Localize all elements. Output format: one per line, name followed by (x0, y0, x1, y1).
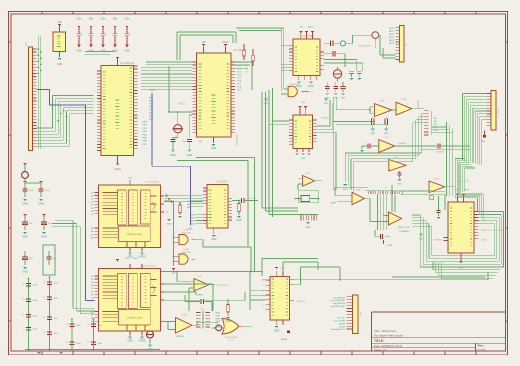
svg-text:GND: GND (133, 258, 138, 260)
svg-text:CLK: CLK (128, 178, 133, 180)
svg-text:AGND: AGND (139, 340, 146, 343)
svg-text:100n: 100n (124, 19, 130, 21)
svg-text:IC5E: IC5E (434, 179, 439, 181)
svg-text:AC IN: AC IN (339, 325, 345, 328)
svg-text:IC3 24C64: IC3 24C64 (217, 182, 229, 184)
svg-text:100n: 100n (54, 318, 58, 320)
svg-text:IC4A: IC4A (184, 229, 189, 232)
svg-text:For: Model <Math circuit>: For: Model <Math circuit> (374, 334, 404, 338)
svg-text:WM8804: WM8804 (434, 240, 443, 242)
svg-text:100n: 100n (76, 343, 80, 345)
svg-text:GND: GND (225, 320, 231, 323)
svg-text:GND: GND (274, 330, 280, 333)
svg-text:VREF: VREF (330, 203, 336, 205)
svg-text:SCL: SCL (188, 228, 193, 231)
svg-text:NET5: NET5 (389, 43, 395, 45)
svg-text:IC9 74HC574: IC9 74HC574 (145, 182, 159, 184)
svg-text:GND: GND (22, 203, 28, 206)
svg-text:IC11: IC11 (459, 181, 464, 183)
svg-text:GND: GND (22, 271, 28, 274)
svg-text:Pos PWM GND: Pos PWM GND (331, 300, 346, 302)
svg-text:16.9344MHZ: 16.9344MHZ (358, 46, 371, 48)
svg-text:LM4880: LM4880 (398, 143, 407, 145)
svg-text:+5V: +5V (301, 102, 305, 104)
svg-text:NET0: NET0 (389, 28, 395, 30)
svg-text:100n: 100n (33, 285, 37, 287)
svg-text:GND: GND (170, 154, 176, 157)
svg-text:74HC4046N: 74HC4046N (225, 337, 237, 339)
svg-text:Neg PWM GND: Neg PWM GND (330, 306, 345, 308)
svg-text:GND: GND (481, 141, 486, 143)
svg-text:AVCC: AVCC (222, 41, 229, 44)
svg-text:GND: GND (388, 245, 393, 247)
svg-text:GND: GND (341, 97, 346, 99)
svg-text:100n: 100n (98, 343, 102, 345)
svg-text:AGND: AGND (139, 256, 146, 259)
svg-text:100n: 100n (33, 316, 37, 318)
svg-text:GND: GND (76, 51, 81, 53)
svg-text:AGND: AGND (281, 338, 288, 341)
svg-text:100n: 100n (112, 19, 118, 21)
svg-text:LM4880N: LM4880N (399, 231, 409, 233)
svg-text:74HC04D: 74HC04D (289, 84, 299, 86)
svg-text:100n: 100n (76, 325, 80, 327)
svg-text:100n: 100n (54, 333, 58, 335)
svg-text:MEGA8-AI: MEGA8-AI (236, 134, 239, 145)
svg-text:100n: 100n (33, 300, 37, 302)
svg-text:Neg PWM IN: Neg PWM IN (333, 303, 346, 305)
svg-text:GND: GND (306, 227, 311, 229)
svg-text:MUTE CTRL: MUTE CTRL (398, 227, 411, 229)
svg-text:GND: GND (308, 85, 314, 88)
svg-text:XTAL1: XTAL1 (178, 103, 186, 106)
svg-text:GND: GND (127, 340, 133, 343)
svg-text:IC4C: IC4C (198, 276, 203, 278)
svg-text:100n: 100n (33, 329, 37, 331)
svg-text:+5V: +5V (299, 27, 303, 29)
svg-text:GND: GND (264, 103, 269, 105)
svg-text:LM311: LM311 (197, 295, 204, 297)
svg-text:GND: GND (236, 219, 242, 222)
svg-text:100n: 100n (54, 298, 58, 300)
svg-text:CONTROL LOGIC: CONTROL LOGIC (127, 318, 143, 320)
svg-text:100n/63: 100n/63 (436, 152, 444, 154)
svg-text:100n: 100n (88, 19, 94, 21)
svg-text:+3V3: +3V3 (463, 190, 469, 192)
svg-text:74HC00N: 74HC00N (181, 252, 191, 254)
svg-text:OPA2134: OPA2134 (417, 99, 420, 109)
svg-text:74HC00N: 74HC00N (181, 232, 191, 234)
svg-text:GND: GND (38, 203, 44, 206)
svg-text:TDA1543: TDA1543 (296, 300, 306, 303)
svg-text:GND: GND (397, 184, 402, 186)
svg-text:NET2: NET2 (389, 34, 395, 36)
svg-text:NET4: NET4 (389, 40, 395, 42)
svg-text:GND: GND (187, 154, 193, 157)
svg-text:IC5D: IC5D (394, 157, 399, 159)
svg-text:+5V: +5V (201, 41, 206, 44)
svg-text:GND: GND (211, 147, 217, 150)
svg-text:100n: 100n (98, 325, 102, 327)
svg-text:GND: GND (324, 103, 329, 105)
svg-text:R12 4K7: R12 4K7 (248, 198, 257, 200)
svg-text:GND: GND (459, 268, 464, 270)
svg-text:IC6 CS8416: IC6 CS8416 (300, 36, 313, 38)
svg-text:GND: GND (57, 63, 63, 66)
svg-text:MUTE: MUTE (339, 323, 346, 325)
svg-text:CONTROL LOGIC: CONTROL LOGIC (127, 234, 143, 236)
svg-text:GND: GND (22, 236, 28, 239)
svg-text:GND: GND (124, 51, 129, 53)
svg-text:IC6A: IC6A (356, 189, 361, 192)
svg-text:GND: GND (211, 238, 217, 241)
svg-text:IC10 74HC574: IC10 74HC574 (141, 266, 156, 268)
svg-text:Date: 22/06/2014 19:32: Date: 22/06/2014 19:32 (374, 344, 403, 348)
svg-text:Pos PWM IN: Pos PWM IN (333, 297, 345, 299)
svg-text:IC8A: IC8A (182, 314, 187, 317)
svg-text:GND: GND (301, 158, 306, 160)
svg-text:IC1 MEGA16: IC1 MEGA16 (120, 62, 135, 65)
svg-text:+5V: +5V (125, 258, 129, 260)
svg-text:IC5B: IC5B (402, 99, 407, 101)
svg-text:+5V: +5V (57, 21, 62, 24)
svg-text:TITLE:: TITLE: (374, 339, 384, 343)
svg-text:GND: GND (167, 224, 172, 226)
svg-text:AGND: AGND (114, 168, 121, 171)
svg-text:Standby/On 5V: Standby/On 5V (331, 328, 346, 331)
svg-text:JP1: JP1 (25, 41, 28, 46)
svg-text:LM311N: LM311N (176, 336, 185, 338)
svg-text:VOL DOWN: VOL DOWN (334, 320, 346, 322)
svg-text:100n: 100n (76, 19, 82, 21)
svg-text:User: <Name Text>: User: <Name Text> (374, 329, 397, 333)
svg-text:GND: GND (384, 133, 389, 135)
svg-text:COAX: COAX (481, 239, 488, 242)
svg-text:GND: GND (343, 189, 348, 191)
svg-text:100n: 100n (54, 283, 58, 285)
svg-text:IC5C: IC5C (384, 137, 389, 139)
svg-text:AVCC: AVCC (308, 26, 314, 29)
svg-text:IC5A: IC5A (380, 100, 385, 103)
svg-text:VOL UP: VOL UP (337, 318, 345, 320)
svg-text:A / 1.0: A / 1.0 (478, 348, 486, 352)
svg-text:GND: GND (370, 133, 375, 135)
svg-text:+5V: +5V (454, 190, 458, 192)
svg-text:NET3: NET3 (389, 37, 395, 39)
svg-text:IC4B: IC4B (184, 249, 189, 251)
svg-text:Rev:: Rev: (478, 344, 485, 348)
svg-text:NET1: NET1 (389, 31, 395, 33)
svg-text:PC2VCOUT: PC2VCOUT (217, 285, 230, 287)
svg-text:GND: GND (41, 236, 47, 239)
svg-text:IC7B: IC7B (306, 173, 311, 175)
svg-text:+5V: +5V (171, 273, 176, 275)
svg-text:Sheet: 1/1: Sheet: 1/1 (374, 348, 387, 352)
svg-text:100n: 100n (100, 19, 106, 21)
